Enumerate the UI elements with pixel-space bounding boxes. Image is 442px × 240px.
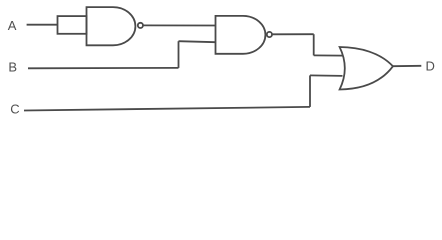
wire B riser (vertical) bbox=[178, 41, 180, 68]
OR gate U3 body bbox=[340, 47, 393, 90]
svg-text:D: D bbox=[426, 59, 435, 74]
NAND gate U1 output bubble bbox=[138, 23, 143, 28]
wire U2 output (horizontal) bbox=[272, 33, 314, 35]
wire from B (horizontal) bbox=[28, 67, 179, 69]
wire U3 output bbox=[393, 65, 421, 67]
tied-input rectangle on A bbox=[58, 16, 87, 34]
NAND gate U2 output bubble bbox=[267, 32, 272, 37]
NAND gate U1 body bbox=[87, 7, 136, 45]
wire C riser (vertical) bbox=[309, 75, 311, 107]
wire U2 output drop (vertical) bbox=[313, 34, 315, 55]
NAND gate U2 body bbox=[216, 16, 266, 54]
wire U1 output to U2 top input bbox=[143, 24, 215, 26]
wire from C (horizontal, slightly sloped scan) bbox=[24, 107, 310, 111]
svg-text:B: B bbox=[8, 59, 17, 74]
wire from A bbox=[27, 24, 58, 26]
svg-text:C: C bbox=[10, 101, 19, 116]
svg-text:A: A bbox=[8, 18, 17, 33]
wire C into OR bottom input bbox=[310, 74, 343, 77]
wire into OR top input bbox=[314, 54, 343, 56]
wire B into U2 bottom input bbox=[179, 41, 216, 42]
